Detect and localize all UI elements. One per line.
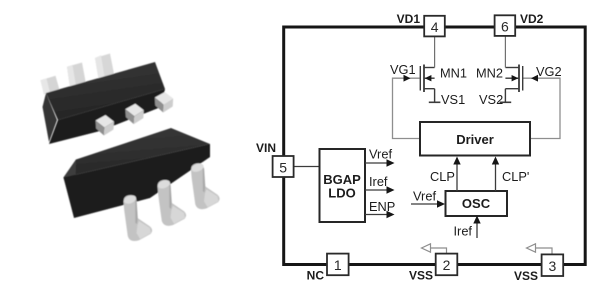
block: OSC — [446, 191, 508, 216]
pin 5 box — [273, 156, 294, 177]
arrowhead on VG1 gate wire — [404, 75, 411, 82]
chip2 lead B — [157, 179, 186, 226]
svg-text:LDO: LDO — [328, 186, 355, 201]
svg-text:VG1: VG1 — [390, 62, 416, 77]
svg-text:VD1: VD1 — [397, 12, 421, 26]
svg-text:4: 4 — [431, 19, 439, 35]
chip1 back lead 3 — [95, 54, 114, 79]
svg-text:6: 6 — [501, 19, 509, 35]
svg-text:MN1: MN1 — [440, 65, 467, 80]
svg-text:CLP: CLP — [430, 169, 455, 184]
svg-text:VD2: VD2 — [520, 12, 544, 26]
MN2 source stub — [505, 88, 519, 90]
pin 3 box — [542, 254, 564, 276]
svg-text:VS2: VS2 — [479, 92, 503, 107]
block: BGAP LDO — [320, 149, 366, 222]
chip1 body top face — [46, 62, 165, 120]
outer boundary of IC — [284, 27, 586, 265]
signal Vref into OSC — [411, 203, 438, 205]
svg-text:Iref: Iref — [369, 174, 388, 189]
svg-text:Vref: Vref — [413, 188, 436, 203]
chip2 body front face — [64, 144, 211, 218]
MN2 drain wire from pin 6 — [504, 36, 506, 68]
chip1 front lead B — [125, 104, 144, 125]
transistor MN2 — [500, 36, 523, 102]
svg-text:1: 1 — [334, 257, 342, 273]
MN1 source stub — [424, 88, 435, 90]
block: Driver — [420, 122, 530, 156]
svg-text:MN2: MN2 — [476, 65, 503, 80]
substrate arrow at pin 2 — [430, 248, 447, 253]
signal Iref into OSC bottom — [476, 221, 478, 238]
svg-text:VIN: VIN — [256, 141, 276, 155]
svg-text:VG2: VG2 — [536, 64, 562, 79]
chip1 back lead 1 — [41, 76, 60, 95]
svg-text:Iref: Iref — [454, 224, 473, 239]
MN1 source wire — [434, 89, 436, 102]
MN1 body arrow — [425, 75, 432, 81]
MN2 drain stub — [505, 67, 519, 69]
MN2 gate bar — [522, 66, 524, 91]
chip2 lead C — [190, 162, 219, 209]
substrate arrow at pin 3 — [535, 248, 552, 254]
MN1 body stub — [424, 77, 435, 79]
wire: pin5 to BGAP LDO — [294, 166, 320, 168]
signal CLP from OSC to Driver — [456, 163, 458, 191]
signal CLP' from OSC to Driver — [495, 163, 497, 191]
transistor MN1 — [420, 36, 440, 102]
MN2 body stub — [505, 77, 519, 79]
pin 1 box — [327, 254, 349, 276]
svg-text:ENP: ENP — [369, 199, 395, 214]
MN1 gate bar — [419, 66, 421, 91]
MN2 body arrow — [512, 75, 519, 81]
wire: VG1 gate loop (Driver left to MN1 gate) — [393, 78, 421, 138]
chip1 body left end facet — [43, 93, 58, 142]
signal Vref out of BGAP — [365, 162, 388, 164]
svg-text:Driver: Driver — [456, 132, 494, 147]
MN2 source end tick — [500, 101, 512, 103]
chip1 back lead 2 — [67, 63, 86, 88]
IC package photo: chip 2 (lower) — [64, 128, 220, 241]
chip1 front lead C — [155, 92, 174, 113]
svg-text:2: 2 — [443, 257, 451, 273]
MN1 drain stub — [424, 67, 435, 69]
svg-text:OSC: OSC — [462, 196, 491, 211]
svg-text:VSS: VSS — [514, 269, 538, 283]
chip2 lead A — [123, 194, 152, 241]
chip1 body front face — [49, 89, 165, 144]
wire: VG2 gate loop (Driver right to MN2 gate) — [523, 78, 560, 138]
svg-text:CLP': CLP' — [502, 169, 529, 184]
MN2 source wire — [504, 89, 506, 102]
MN2 channel bar — [518, 65, 520, 93]
MN1 channel bar — [423, 65, 425, 93]
chip2 body left end facet — [64, 160, 77, 218]
chip2 body top face — [64, 128, 211, 178]
chip1 front lead A — [96, 115, 115, 136]
svg-text:NC: NC — [307, 269, 325, 283]
svg-text:VS1: VS1 — [441, 92, 465, 107]
pin 2 box — [436, 254, 458, 276]
svg-text:VSS: VSS — [409, 269, 433, 283]
svg-text:5: 5 — [279, 159, 287, 175]
MN1 source end tick — [429, 101, 441, 103]
svg-text:Vref: Vref — [369, 147, 392, 162]
signal Iref out of BGAP — [365, 189, 388, 191]
IC package photo: chip 1 (upper) — [41, 54, 174, 145]
MN1 drain wire from pin 4 — [434, 36, 436, 67]
arrowhead on VG2 gate wire — [531, 75, 538, 82]
pin 4 box — [424, 16, 445, 37]
pin 6 box — [495, 15, 516, 36]
svg-text:3: 3 — [549, 258, 557, 274]
signal ENP out of BGAP — [365, 214, 388, 216]
